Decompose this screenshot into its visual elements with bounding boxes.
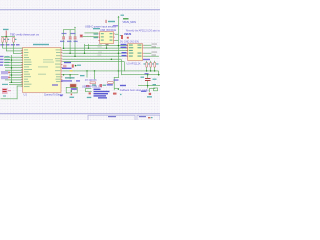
junction xyxy=(5,36,7,38)
purple tick left xyxy=(60,95,63,96)
title block box Sheet xyxy=(88,115,160,121)
wires into U1 left mid xyxy=(4,55,23,85)
wire R2 down xyxy=(5,42,8,51)
component sym A left xyxy=(1,71,10,74)
crystal shield box xyxy=(66,87,77,93)
decoupling caps top xyxy=(63,29,75,56)
svg-text:VBUS_MON: VBUS_MON xyxy=(123,21,137,24)
U3 right net names gray xyxy=(152,44,158,56)
bus line top xyxy=(0,9,160,10)
cap labels top xyxy=(62,33,76,34)
cap C1 xyxy=(62,37,65,40)
junction on it xyxy=(147,85,149,87)
purple label near cap xyxy=(145,73,149,74)
RH3 labels xyxy=(114,79,119,80)
net label row xyxy=(0,44,19,46)
U3 right pins xyxy=(143,45,144,57)
cap C3 xyxy=(74,37,77,40)
wires right corner routing xyxy=(114,54,160,90)
red cross mark xyxy=(127,37,129,39)
resistor R3 xyxy=(13,38,15,43)
wire bottom right horizontal xyxy=(138,84,160,87)
wire left rail xyxy=(1,35,15,38)
label purple xyxy=(113,25,118,26)
purple text right of U3 xyxy=(143,59,150,60)
resistor RH1 xyxy=(90,82,96,84)
U2 ref below xyxy=(106,44,109,45)
label below comps xyxy=(2,84,8,85)
svg-text:U3 AP2112K: U3 AP2112K xyxy=(127,63,141,66)
junction right rail xyxy=(158,74,160,76)
U2 left pins xyxy=(98,34,99,41)
wire R3 down xyxy=(12,42,15,54)
power arrow above caps xyxy=(74,27,76,29)
U1 main MCU body xyxy=(23,48,61,93)
mid bus wires U1 to U3 xyxy=(62,45,128,71)
teal mark xyxy=(92,84,96,85)
yellow mark xyxy=(70,70,73,72)
cap C2 xyxy=(69,37,72,40)
junction crystal xyxy=(69,74,71,76)
blue comment block xyxy=(94,89,110,99)
connector J bottom left xyxy=(2,88,11,94)
U1 right pin names xyxy=(55,49,61,82)
wire vertical from top power xyxy=(117,17,120,54)
GND sub right bottom xyxy=(147,88,158,98)
crystal gnd pin xyxy=(71,94,72,96)
U1 inner long names xyxy=(43,59,54,62)
svg-text:TBD verify these part va: TBD verify these part va xyxy=(10,32,39,36)
U2 outside left labels xyxy=(94,33,99,38)
reset area labels xyxy=(64,62,71,63)
U3 left pins xyxy=(126,45,127,57)
U3 pin names xyxy=(129,45,142,57)
resistor stubs xyxy=(125,61,159,71)
junction dots mid bus xyxy=(63,45,119,72)
U2 right pins xyxy=(114,34,115,41)
value labels teal xyxy=(4,39,17,40)
blue label row y68 xyxy=(62,68,72,69)
bus line bottom xyxy=(0,113,160,114)
small component row y65 xyxy=(63,64,81,67)
blue text in box xyxy=(71,88,77,90)
usb resistor area mid bottom xyxy=(80,75,85,76)
right resistor labels xyxy=(144,63,159,64)
green label right xyxy=(123,18,129,20)
U3 IO expander body xyxy=(128,44,143,61)
svg-text:VBUS: VBUS xyxy=(124,32,131,36)
resistor RH2 xyxy=(86,85,90,87)
svg-text:Connect To Device: Connect To Device xyxy=(44,94,64,97)
svg-text:USB-C power input section: USB-C power input section xyxy=(85,24,117,28)
cap C7 labels xyxy=(141,77,157,86)
label +3V3 mid xyxy=(108,21,115,22)
power stub left xyxy=(5,31,8,37)
power symbol mid top xyxy=(105,20,108,23)
teal labels left stack xyxy=(5,56,11,65)
U2 top teal label xyxy=(93,28,100,29)
U1 inner row mid xyxy=(38,66,48,67)
component sym B left xyxy=(1,76,10,79)
title block marks xyxy=(148,117,151,118)
crystal body xyxy=(70,84,77,88)
U1 right pin stubs xyxy=(61,50,62,82)
net name specks mid bus xyxy=(98,44,103,55)
LED D3 bottom xyxy=(113,88,119,94)
junction dots right xyxy=(146,70,156,72)
wires U2 right xyxy=(115,34,119,41)
U3 left net labels xyxy=(121,44,127,57)
teal tick left of D2 xyxy=(120,35,122,36)
teal tick xyxy=(120,94,122,95)
junction cap column xyxy=(147,74,149,76)
pullup resistors right R4 R5 R6 xyxy=(146,62,156,67)
wires U2 left xyxy=(81,33,98,37)
wires crystal row xyxy=(62,74,78,79)
blue text under xyxy=(141,91,147,92)
sub circuit reset mid xyxy=(87,71,95,80)
resistor R2 xyxy=(6,38,8,43)
wire bottom left loop xyxy=(1,86,23,100)
svg-text:USB_DP USB_DM: USB_DP USB_DM xyxy=(82,85,102,88)
title block text xyxy=(108,116,146,117)
purple label under U1 right xyxy=(52,84,58,85)
U1 left pin stubs xyxy=(21,50,22,87)
wire to U1 pin b xyxy=(6,50,23,53)
wire to U1 pin c xyxy=(13,52,23,55)
wires U3 right xyxy=(144,45,160,57)
U2 pin names xyxy=(101,33,113,40)
cap labels bottom xyxy=(60,41,78,42)
resistor RH3 xyxy=(108,82,114,84)
hier labels left stack xyxy=(0,56,4,66)
resistor R1 xyxy=(2,38,4,43)
junction dots left bus xyxy=(11,59,13,83)
U1 left pin names xyxy=(24,49,32,87)
wire to U1 pin a xyxy=(2,47,23,50)
crystal label xyxy=(65,77,75,78)
red blob left of RH3 xyxy=(100,84,103,87)
blue label lower left xyxy=(120,85,126,86)
U2 USB bridge body xyxy=(100,32,114,44)
wire R1 down xyxy=(1,42,4,48)
vertical drops mid xyxy=(84,44,107,53)
diode D1 xyxy=(80,34,83,37)
cap C7 right xyxy=(145,75,151,88)
svg-text:U1: U1 xyxy=(24,93,28,97)
crystal gnd label xyxy=(70,97,75,98)
U1 value text above xyxy=(33,44,49,45)
power flag +3V3 top xyxy=(118,15,124,18)
svg-text:USB_BRIDGE: USB_BRIDGE xyxy=(100,29,116,32)
GND sym mid1 xyxy=(85,88,91,98)
dot under crystal xyxy=(71,90,73,92)
connector sub label xyxy=(3,95,6,96)
crystal text blue xyxy=(61,80,72,81)
LED D2 xyxy=(121,35,123,39)
svg-text:5V GND 3V3 EN: 5V GND 3V3 EN xyxy=(120,40,139,43)
+3V3 flag left xyxy=(3,29,9,30)
